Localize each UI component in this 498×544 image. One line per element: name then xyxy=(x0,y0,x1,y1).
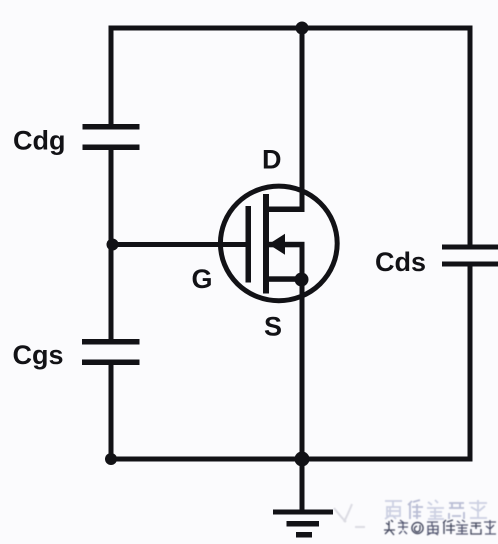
transistor Q1 drain connection xyxy=(265,207,305,213)
svg-text:S: S xyxy=(264,312,282,342)
transistor Q1 gate bar xyxy=(246,206,252,283)
ground bar 1 xyxy=(273,510,333,515)
transistor Q1 body-source junction dot xyxy=(295,273,309,287)
capacitor Cdg plate bottom xyxy=(83,145,140,151)
node: bottom source junction dot xyxy=(295,452,310,467)
wire: right vertical upper segment (top rail to Cds) xyxy=(468,26,473,245)
node: top drain junction dot xyxy=(296,22,309,35)
transistor Q1 internal vertical (body to source) xyxy=(300,242,305,282)
capacitor Cgs plate top xyxy=(82,339,140,345)
svg-text:Cds: Cds xyxy=(375,247,426,277)
transistor Q1 body arrowhead xyxy=(269,234,286,255)
wire: left vertical middle segment (Cdg to Cgs through gate node) xyxy=(109,150,114,340)
transistor Q1 body connection with arrow line xyxy=(269,242,305,248)
node: gate junction dot xyxy=(107,239,119,251)
wire: gate horizontal (left rail to gate) xyxy=(111,242,247,247)
watermark ghost line 硬件笔记本 xyxy=(385,500,487,519)
ground bar 3 xyxy=(296,532,312,538)
watermark 头条@硬件笔记本 xyxy=(384,520,496,535)
transistor Q1 channel bar xyxy=(263,194,269,294)
watermark faint squiggle xyxy=(334,504,365,527)
wire: left vertical lower segment (Cgs to bottom rail) xyxy=(109,365,114,462)
svg-text:D: D xyxy=(262,145,282,175)
capacitor Cgs plate bottom xyxy=(82,360,140,366)
wire: left vertical upper segment (top rail to Cdg) xyxy=(109,26,114,125)
capacitor Cds plate top xyxy=(442,245,498,250)
wire: source vertical (MOSFET to bottom rail and ground) xyxy=(300,279,305,511)
svg-text:Cdg: Cdg xyxy=(13,126,65,156)
wire: drain vertical (top rail into MOSFET) xyxy=(300,28,305,212)
wire: top horizontal (drain rail) xyxy=(109,26,473,31)
transistor Q1 source connection xyxy=(265,276,305,282)
wire: bottom horizontal (source rail) xyxy=(109,457,473,462)
node: bottom-left junction dot xyxy=(105,453,117,465)
capacitor Cds plate bottom xyxy=(442,262,498,267)
svg-text:G: G xyxy=(192,264,213,294)
capacitor Cdg plate top xyxy=(83,124,140,130)
svg-text:Cgs: Cgs xyxy=(13,340,64,370)
transistor Q1 body circle xyxy=(220,186,337,301)
wire: right vertical lower segment (Cds to bottom rail) xyxy=(468,267,473,462)
ground bar 2 xyxy=(287,521,320,527)
